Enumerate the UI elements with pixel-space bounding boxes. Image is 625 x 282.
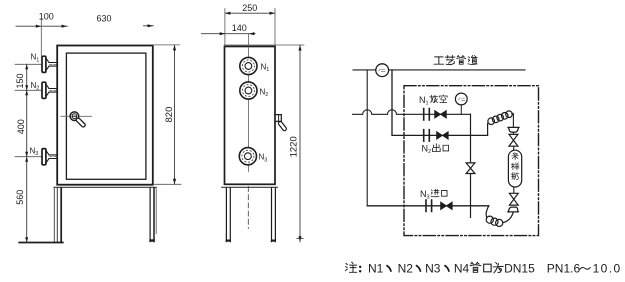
svg-text:N4: N4 [454,261,470,275]
svg-text:N2: N2 [260,87,269,98]
side view door latch [276,115,281,122]
svg-text:DN15: DN15 [504,261,535,275]
N1 vent line with jump humps [353,110,471,115]
dim 1220 [275,44,304,46]
N1 valve [435,111,447,119]
dim 820 [153,44,179,46]
svg-text:100: 100 [39,11,54,21]
svg-text:250: 250 [242,3,257,13]
dim 250 [225,12,275,14]
door handle [70,112,79,121]
svg-text:150: 150 [15,73,25,88]
svg-text:10.0: 10.0 [593,261,622,275]
ground line [19,242,63,244]
N1 flange [424,109,430,120]
cabinet front view outer body [57,46,153,185]
N2 flange [424,130,430,141]
svg-text:560: 560 [15,190,25,205]
svg-text:N3: N3 [30,146,39,157]
side view right leg [272,188,276,242]
instrument circle on process pipe [376,64,389,77]
process pipe (top) [353,69,525,71]
cabinet base lip line [54,186,156,188]
nozzle centerline vertical [247,34,249,172]
svg-text:1220: 1220 [288,136,299,157]
side view left leg [226,188,230,242]
nozzle flanges N1 N2 N3 on front view [15,63,42,65]
N3 valve [441,202,453,210]
svg-text:N1: N1 [368,261,384,275]
svg-text:N1: N1 [31,53,40,64]
right rear leg line [155,188,157,234]
dashed centerline under side view [247,187,249,229]
note line [346,261,622,275]
pressure gauge circle [455,93,467,105]
N3 inlet line [367,205,489,207]
front view right leg [149,188,151,242]
bottom coil [486,206,489,217]
top coil [488,118,495,125]
sampler top valve [509,134,518,146]
svg-text:N2: N2 [422,144,432,155]
dim 100 [16,25,67,27]
N2 outlet line [392,134,488,136]
valve on junction vertical [466,163,475,174]
riser to top coil [487,123,489,135]
svg-text:140: 140 [232,23,247,33]
dim 140 [202,33,256,35]
tap vertical 1 (to N3 inlet) [366,70,368,206]
dim 630 [144,25,154,27]
svg-text:N3: N3 [425,261,441,275]
door handle centerline [61,115,92,117]
svg-text:400: 400 [16,119,26,134]
svg-text:N2: N2 [31,81,40,92]
nozzle end circles with bolt circle [240,57,257,74]
junction vertical with valve [470,114,472,217]
svg-text:N2: N2 [398,261,414,275]
N2 valve [437,132,449,140]
N3 flange [426,200,432,211]
bottom funnel dome [508,207,519,212]
svg-text:N3: N3 [259,153,268,164]
svg-text:N1: N1 [419,95,429,106]
door panel [66,53,145,179]
left dimension chain line [26,64,28,242]
svg-text:PN1.6: PN1.6 [547,261,581,275]
sample bottle capsule [513,146,515,150]
svg-text:630: 630 [97,13,112,23]
svg-text:N1: N1 [261,62,270,73]
label: gong yi guan dao (process piping) [434,55,477,64]
svg-text:820: 820 [164,107,175,123]
front view left leg [53,188,55,243]
tap vertical 2 (to N2 outlet) [391,70,393,135]
side base lip [222,186,278,188]
side view body [225,46,276,184]
cabinet boundary (chain line box) [404,86,539,236]
sampler bottom valve [513,187,515,193]
label cai yang ping (sample bottle) vertical [512,153,518,160]
top funnel cup [508,127,519,132]
svg-text:N3: N3 [420,189,430,200]
